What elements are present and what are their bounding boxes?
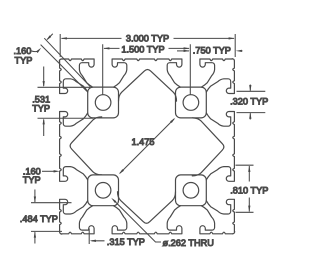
- dimension .531 TYP pad height: [32, 67, 93, 137]
- profile corner 2 outer radius: [232, 59, 234, 61]
- svg-text:.484 TYP: .484 TYP: [20, 214, 58, 224]
- dimension .160 TYP wall thickness leader (left): [23, 167, 60, 185]
- boss pad 4 rounded square: [176, 175, 207, 206]
- svg-text:TYP: TYP: [23, 175, 41, 185]
- svg-text:TYP: TYP: [15, 55, 33, 65]
- profile bottom face: outer edge, two T-slot cavities, center wall: [62, 192, 233, 234]
- profile top face: outer edge, two T-slot cavities, center wall: [62, 59, 233, 101]
- svg-text:TYP: TYP: [32, 103, 50, 113]
- hole 1 ø.262: [95, 95, 111, 111]
- profile corner 3 outer radius: [233, 232, 235, 234]
- hole 3 ø.262: [95, 183, 111, 199]
- svg-text:.320 TYP: .320 TYP: [230, 96, 268, 106]
- svg-text:1.475: 1.475: [132, 137, 155, 147]
- boss pad 3 rounded square: [88, 175, 119, 206]
- dimension 1.475 diagonal across center: [119, 118, 176, 175]
- svg-text:.750 TYP: .750 TYP: [193, 46, 231, 56]
- svg-text:ø.262 THRU: ø.262 THRU: [163, 238, 214, 248]
- profile left face: outer edge, two T-slot cavities, center wall: [60, 61, 102, 232]
- dimension .484 TYP: [20, 190, 72, 244]
- dimension .810 TYP slot cavity width: [230, 165, 268, 212]
- svg-text:.160: .160: [14, 46, 32, 56]
- dimension .750 TYP hole to edge: [177, 46, 243, 56]
- svg-text:.315 TYP: .315 TYP: [107, 237, 145, 247]
- leader and label hole diameter .262 THRU: [111, 198, 214, 248]
- profile right face: outer edge, two T-slot cavities, center wall: [192, 61, 234, 232]
- hole 2 ø.262: [183, 95, 199, 111]
- boss pad 2 rounded square: [176, 87, 207, 118]
- svg-text:.810 TYP: .810 TYP: [230, 186, 268, 196]
- svg-text:3.000 TYP: 3.000 TYP: [126, 34, 169, 44]
- dimension 1.500 TYP hole spacing: [103, 44, 191, 94]
- dimension .315 TYP slot opening: [89, 229, 145, 247]
- profile corner 1 outer radius: [59, 59, 61, 61]
- boss pad 1 rounded square: [88, 87, 119, 118]
- profile corner 4 outer radius: [60, 232, 62, 234]
- dimension .320 TYP: [230, 85, 268, 120]
- dimension 3.000 TYP overall width: [60, 34, 235, 57]
- svg-text:1.500 TYP: 1.500 TYP: [121, 44, 164, 54]
- dimension .160 TYP corner web thickness, extension lines and leader: [14, 34, 91, 92]
- hole 4 ø.262: [183, 183, 199, 199]
